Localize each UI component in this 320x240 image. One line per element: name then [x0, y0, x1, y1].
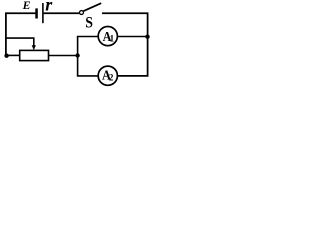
svg-text:E: E	[22, 0, 31, 12]
svg-text:r: r	[45, 0, 53, 15]
svg-text:S: S	[85, 14, 93, 31]
svg-text:2: 2	[109, 73, 114, 83]
svg-text:1: 1	[110, 33, 115, 43]
